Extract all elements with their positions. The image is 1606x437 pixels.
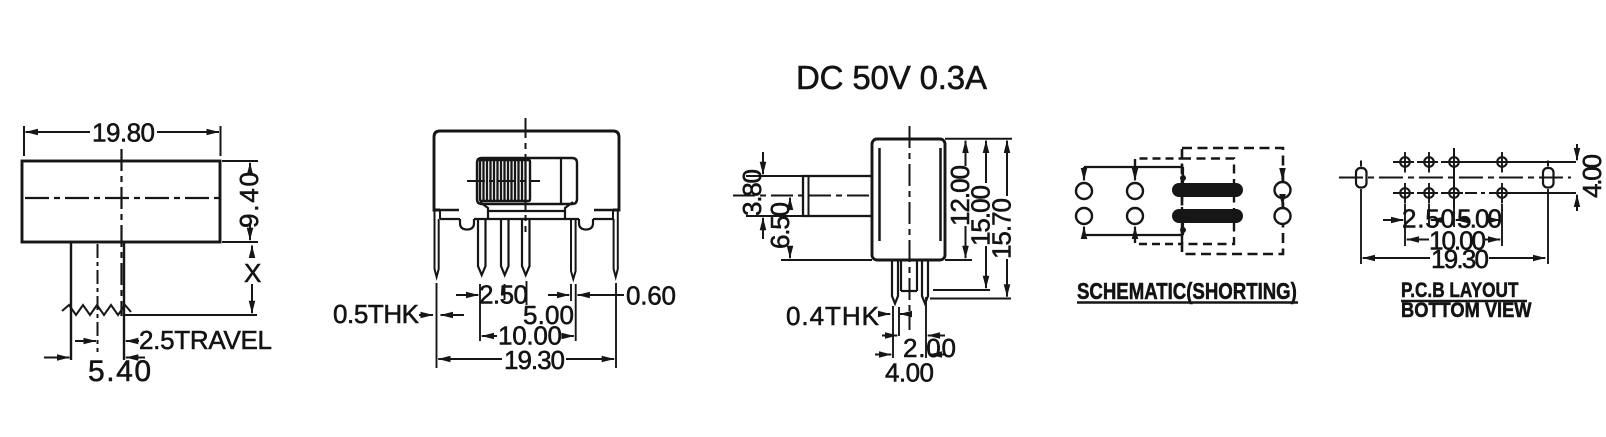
pad A3: [1449, 157, 1459, 167]
svg-text:SCHEMATIC(SHORTING): SCHEMATIC(SHORTING): [1077, 279, 1297, 304]
left slot pad: [1356, 168, 1367, 188]
left slot tick: [1360, 161, 1362, 167]
rect bottom extension right: [222, 241, 258, 243]
dim 5.00 arrow right: [1491, 219, 1500, 221]
knob centerline: [733, 195, 872, 197]
pad B3 cross overlay: [1445, 183, 1463, 204]
right slot extension: [1547, 189, 1549, 264]
dim X line bottom: [251, 284, 253, 313]
knob side: [803, 176, 872, 216]
svg-text:2.50: 2.50: [479, 280, 528, 310]
svg-text:9.40: 9.40: [234, 172, 264, 228]
left mounting tab: [435, 211, 439, 277]
ext pad4 down: [1501, 204, 1503, 246]
dim 19.80 line right: [157, 131, 219, 133]
knob serration border: [480, 160, 530, 201]
dim 19.80 extension right: [220, 126, 222, 156]
ext line left tab: [436, 283, 438, 368]
contact 6: [1275, 208, 1291, 224]
inner seam left: [878, 148, 881, 241]
pedestal right chamfer: [565, 202, 573, 219]
schematic underline: [1077, 301, 1298, 303]
contact 2: [1127, 183, 1143, 199]
knob horizontal centerline: [467, 180, 540, 182]
horizontal centerline: [25, 197, 222, 199]
slider stem right edge: [123, 242, 125, 360]
bottom row line dashed: [1393, 192, 1497, 194]
ext line pin2: [504, 284, 506, 300]
svg-text:0.4THK: 0.4THK: [786, 301, 880, 331]
pad A2: [1424, 157, 1434, 167]
pedestal left chamfer: [480, 202, 488, 219]
pin 1: [478, 219, 486, 275]
ext line pin1: [479, 284, 481, 341]
svg-text:19.30: 19.30: [1431, 244, 1489, 274]
pattern center vertical: [1453, 148, 1455, 208]
riser to bar 2: [1182, 223, 1184, 235]
contact 3: [1275, 182, 1291, 198]
pad A1: [1400, 157, 1410, 167]
dim 10.00 arrow left: [482, 335, 497, 337]
center slot bottom: [901, 290, 917, 292]
svg-text:BOTTOM VIEW: BOTTOM VIEW: [1401, 299, 1532, 323]
dim 19.30 line right: [566, 358, 614, 360]
rect top extension right: [222, 160, 258, 162]
platform top edge: [488, 210, 565, 212]
junction dot top: [1180, 175, 1186, 181]
dim X line top: [251, 246, 253, 257]
ext line pin3: [526, 281, 528, 305]
dim 5.40 line left: [44, 357, 70, 359]
svg-text:19.80: 19.80: [92, 118, 155, 148]
pad cross horizontals: [1396, 162, 1511, 193]
flange line segments: [440, 218, 613, 220]
ext line thin pin right: [575, 284, 577, 341]
pad cross verticals top row: [1405, 152, 1502, 173]
pad cross verticals bottom row: [1405, 183, 1502, 204]
body outline: [434, 131, 619, 210]
shorting bar 1: [1172, 183, 1243, 197]
ext pad3 down: [1453, 208, 1455, 227]
dim 0.60 arrow right: [577, 294, 600, 296]
contact 5: [1127, 208, 1143, 224]
ext line pin left edge: [892, 306, 894, 358]
pad B1: [1400, 188, 1410, 198]
vertical centerline: [525, 118, 527, 232]
svg-text:0.5THK: 0.5THK: [333, 299, 420, 329]
slider outer dashed box: [1182, 148, 1283, 254]
dim 10.00 arrow right: [1485, 239, 1500, 241]
dashed stub bottom: [1135, 235, 1182, 244]
drop to contact 2: [1134, 167, 1136, 180]
X reference line: [124, 314, 257, 316]
junction dot bottom: [1180, 227, 1186, 233]
svg-text:3.80: 3.80: [737, 169, 767, 216]
knob top extension: [746, 175, 803, 177]
pad B2: [1424, 188, 1434, 198]
knob serration hatch: [484, 160, 526, 201]
dim 15.70 line top: [1006, 141, 1008, 196]
break zigzag: [62, 305, 131, 315]
dim 2.00 arrow right: [928, 335, 945, 337]
dim 0.4THK arrow left: [881, 313, 890, 315]
center slot right wall: [916, 260, 918, 291]
thin pin: [571, 219, 576, 279]
vertical centerline: [120, 149, 122, 316]
dim travel line right: [126, 340, 139, 342]
dim 12.00 line top: [965, 141, 967, 166]
ext line pin right edge: [898, 307, 900, 336]
body bottom edge left: [434, 209, 459, 211]
pad A4: [1497, 157, 1507, 167]
bottom extension right: [945, 259, 972, 261]
svg-text:5.40: 5.40: [88, 355, 151, 388]
ref line 15.00: [933, 289, 990, 291]
shorting bar 2: [1172, 209, 1243, 223]
dim 19.30 line right: [1489, 257, 1545, 259]
dashed stub top: [1135, 159, 1182, 168]
ext line thin pin left: [570, 284, 572, 301]
left slot extension: [1360, 189, 1362, 264]
slider inner dashed box: [1182, 159, 1234, 245]
dim 10.00 arrow left: [1407, 239, 1429, 241]
dim 2.50 arrow left: [456, 294, 478, 296]
top row line solid: [1448, 161, 1576, 163]
bottom row line solid: [1497, 192, 1576, 194]
dim 3.80 arrow bottom: [762, 218, 764, 239]
right slot pad: [1543, 168, 1554, 188]
dim 4.00 arrow bottom: [1576, 195, 1578, 211]
dim 0.4THK arrow right: [900, 313, 912, 315]
dim 0.5THK arrow left: [419, 314, 433, 316]
riser from contact 4: [1083, 227, 1085, 235]
dim 9.40 line top: [249, 163, 251, 172]
dim 4.00 arrow left: [875, 354, 891, 356]
dim 15.70 line bottom: [1006, 259, 1008, 297]
svg-text:DC 50V 0.3A: DC 50V 0.3A: [796, 59, 987, 96]
svg-text:6.50: 6.50: [765, 202, 795, 249]
body outline: [22, 161, 220, 242]
inner seam right: [939, 148, 942, 241]
side pin rear: [922, 260, 928, 304]
top wire: [1084, 166, 1183, 168]
dim 15.00 line top: [985, 141, 987, 183]
pad B4: [1497, 188, 1507, 198]
svg-text:X: X: [244, 258, 261, 288]
svg-text:2.5TRAVEL: 2.5TRAVEL: [139, 325, 272, 355]
dim 9.40 line bottom: [249, 224, 251, 240]
ext line rear pin: [925, 297, 927, 358]
pad B3: [1449, 188, 1459, 198]
center slot left wall: [900, 260, 902, 291]
dim 2.50 arrow left: [1383, 219, 1403, 221]
dim 12.00 line bottom: [965, 226, 967, 258]
knob outline: [477, 158, 577, 204]
pin 2: [501, 219, 509, 275]
dim 19.30 line left: [438, 358, 502, 360]
contact 4: [1076, 208, 1092, 224]
dim 4.00 arrow right: [930, 354, 945, 356]
ext pad2 down: [1428, 204, 1430, 227]
right slot tick: [1547, 161, 1549, 167]
top reference line: [945, 138, 1012, 140]
round tab right: [579, 219, 593, 230]
arrow to contact 3: [1281, 170, 1283, 180]
dim 5.40 line right: [126, 357, 145, 359]
drop to bar 1: [1182, 167, 1184, 183]
slider stem left edge: [70, 242, 72, 360]
dim 2.50 arrow right: [1431, 219, 1442, 221]
bottom wire: [1084, 234, 1183, 236]
body outline: [872, 139, 945, 260]
dim 19.80 line left: [26, 131, 91, 133]
ext pad1 down: [1404, 204, 1406, 246]
knob end cap line: [560, 159, 562, 203]
ext line right tab: [615, 283, 617, 368]
dim 19.30 line left: [1363, 257, 1430, 259]
top row line dashed: [1393, 161, 1448, 163]
dim 4.00 arrow top: [1576, 144, 1578, 160]
dim 6.50 arrow bottom: [789, 248, 791, 258]
stem centerline: [97, 244, 99, 352]
knob face line: [808, 176, 810, 216]
right mounting tab: [614, 211, 618, 277]
dim travel line left: [75, 340, 96, 342]
svg-text:15.70: 15.70: [987, 198, 1017, 259]
vertical centerline: [909, 126, 911, 330]
body bottom edge right: [594, 209, 619, 211]
bottom extension left: [781, 259, 872, 261]
ref line 15.70: [930, 298, 1011, 300]
right tab step: [612, 210, 614, 219]
svg-text:4.00: 4.00: [1577, 154, 1606, 198]
drop to contact 1: [1083, 167, 1085, 180]
dim 10.00 arrow right: [562, 335, 574, 337]
dim 3.80 arrow top: [762, 152, 764, 174]
dim 0.60 arrow left: [548, 294, 569, 296]
pin 3: [522, 219, 530, 275]
contact 1: [1076, 183, 1092, 199]
svg-text:19.30: 19.30: [504, 345, 565, 375]
knob bottom extension: [746, 215, 803, 217]
riser from contact 5: [1134, 227, 1136, 235]
left tab step: [439, 210, 441, 219]
dim 15.00 line bottom: [985, 246, 987, 288]
dim 0.60 leader: [598, 294, 624, 296]
arrow to contact 6: [1281, 200, 1283, 207]
pcb layout underline: [1401, 300, 1527, 302]
side pin front: [892, 260, 898, 304]
dim 0.5THK arrow right: [441, 314, 465, 316]
dim 2.00 arrow left: [882, 335, 897, 337]
round tab left: [460, 219, 474, 230]
dim 19.80 extension left: [23, 126, 25, 156]
dim 5.00 arrow left: [1456, 219, 1466, 221]
dim 6.50 arrow top: [789, 198, 791, 207]
pcb centerline: [1339, 177, 1571, 179]
svg-text:0.60: 0.60: [626, 281, 676, 311]
pad A3 cross overlay: [1445, 152, 1463, 173]
svg-text:4.00: 4.00: [885, 358, 934, 388]
